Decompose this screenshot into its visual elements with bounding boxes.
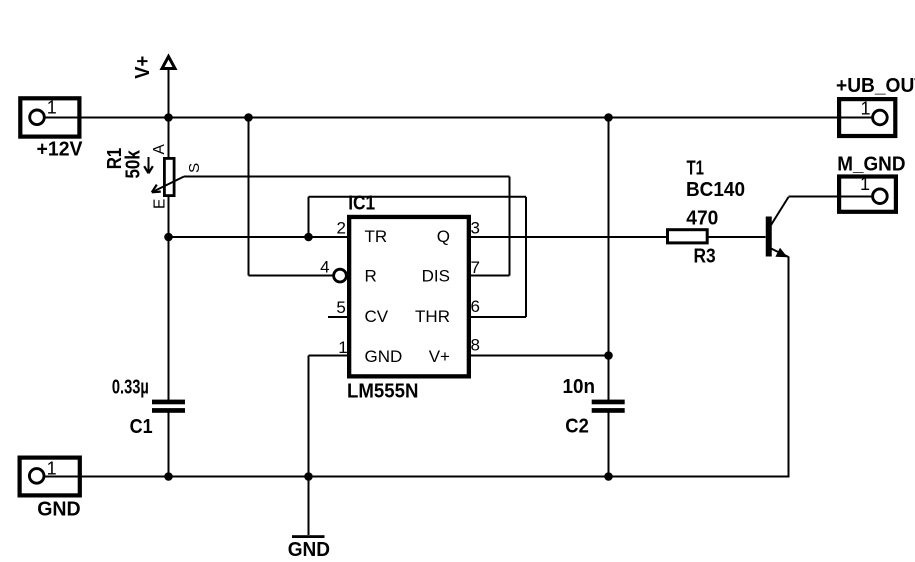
svg-text:C1: C1 (130, 416, 153, 438)
wiper arrow of R1 (152, 177, 184, 193)
svg-text:E: E (151, 199, 168, 209)
connector +UB_OUT (836, 75, 915, 136)
wire main left vertical C1 to GND rail (168, 412, 170, 477)
svg-text:TR: TR (365, 227, 388, 246)
svg-text:GND: GND (288, 539, 330, 561)
svg-text:0.33µ: 0.33µ (112, 376, 149, 398)
svg-text:6: 6 (471, 297, 480, 316)
svg-text:7: 7 (471, 258, 480, 277)
svg-text:10n: 10n (563, 376, 596, 398)
junction V+ rail / left vertical (164, 113, 173, 122)
svg-text:T1: T1 (687, 158, 705, 180)
svg-text:S: S (186, 163, 203, 173)
junction V+ pin8 / right vertical (604, 351, 613, 360)
svg-text:CV: CV (365, 307, 389, 326)
emitter arrowhead (775, 248, 787, 257)
svg-text:GND: GND (365, 347, 403, 366)
junction TR net / left vertical (164, 233, 173, 242)
potentiometer R1 50k (104, 144, 203, 210)
junction GND rail / GND symbol (304, 472, 313, 481)
svg-text:THR: THR (415, 307, 450, 326)
timer IC1 LM555N body (320, 193, 480, 403)
junction V+ rail / reset branch (244, 113, 253, 122)
junction V+ rail / right vertical (604, 113, 613, 122)
svg-text:R: R (365, 267, 377, 286)
wire THR link down at x=526 (525, 197, 527, 317)
connector X2 GND (20, 458, 81, 521)
svg-text:BC140: BC140 (686, 179, 745, 201)
wire TR to THR top link (309, 196, 527, 198)
wire right vertical C2 to GND rail (608, 412, 610, 477)
wire V+ net top rail from +12V to +UB_OU (45, 117, 874, 119)
capacitor C2 10n (563, 376, 625, 438)
wire CV pin 5 stub (328, 316, 349, 318)
svg-text:1: 1 (47, 459, 57, 479)
svg-text:+12V: +12V (37, 139, 84, 161)
wire collector to M_GND (789, 196, 874, 198)
svg-text:M_GND: M_GND (837, 154, 905, 176)
wire GND bottom rail (44, 476, 789, 478)
wire GND pin 1 wire (309, 355, 350, 357)
svg-text:GND: GND (37, 498, 80, 520)
wire T1 emitter diagonal (771, 249, 789, 258)
wire TR branch up at x=308 (308, 197, 310, 237)
wire emitter down to GND rail (788, 257, 790, 478)
junction TR net / THR branch (304, 233, 313, 242)
svg-text:1: 1 (47, 98, 57, 118)
ground symbol (288, 535, 330, 561)
wire reset branch down from top rail at x=248 (248, 118, 250, 276)
inversion bubble on pin 4 R (334, 269, 347, 282)
wire TR net from left vertical to IC pin 2 (169, 236, 350, 238)
power symbol V+ (132, 56, 175, 79)
connector X1 +12V (20, 98, 83, 161)
svg-text:V+: V+ (429, 347, 450, 366)
wire R3 to T1 base (709, 236, 766, 238)
svg-text:V+: V+ (132, 56, 154, 79)
wire wiper S net to DIS (184, 176, 510, 178)
svg-text:4: 4 (320, 258, 329, 277)
svg-text:+UB_OUT: +UB_OUT (836, 75, 915, 97)
junction GND rail / C1 (164, 472, 173, 481)
wire V+ pin 8 wire (468, 355, 609, 357)
svg-text:C2: C2 (565, 416, 589, 438)
transistor T1 BC140 (686, 158, 788, 258)
svg-text:1: 1 (338, 338, 347, 357)
wire T1 collector diagonal (771, 197, 789, 225)
wire R pin 4 wire to bubble (249, 275, 333, 277)
svg-text:Q: Q (437, 227, 450, 246)
svg-text:A: A (151, 144, 168, 155)
wire DIS pin 7 wire (468, 275, 510, 277)
svg-text:1: 1 (861, 99, 871, 119)
capacitor C1 0.33u (112, 376, 185, 437)
wire pin1/GND symbol vertical (308, 356, 310, 536)
junction GND rail / C2 (604, 472, 613, 481)
wire V+ right vertical top rail to C2 (608, 118, 610, 401)
svg-text:DIS: DIS (422, 267, 450, 286)
adjust arrow of R1 (148, 157, 150, 173)
svg-text:R3: R3 (694, 246, 716, 268)
svg-text:50k: 50k (122, 149, 144, 178)
svg-text:8: 8 (471, 336, 480, 355)
svg-text:470: 470 (686, 208, 718, 230)
wire THR pin 6 wire (468, 316, 526, 318)
wire S net down at x=509.5 (509, 177, 511, 276)
svg-text:1: 1 (860, 174, 870, 194)
svg-text:LM555N: LM555N (347, 381, 419, 403)
resistor R3 470 (668, 208, 719, 268)
svg-text:5: 5 (336, 298, 345, 317)
wire Q pin 3 wire to R3 (468, 236, 666, 238)
connector M_GND (837, 154, 905, 212)
svg-text:2: 2 (337, 219, 346, 238)
svg-text:3: 3 (471, 219, 480, 238)
wire V+ symbol stem / main left vertical down to C1 (168, 66, 170, 400)
svg-text:IC1: IC1 (348, 193, 375, 215)
